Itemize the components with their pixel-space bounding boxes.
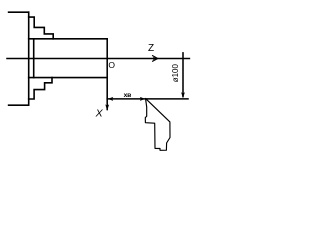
chuck top line — [9, 11, 29, 13]
svg-text:хв: хв — [124, 92, 132, 99]
chuck face vertical — [28, 12, 30, 105]
svg-text:ø100: ø100 — [171, 64, 180, 83]
chuck bottom jaw steps — [29, 78, 52, 99]
cutting tool — [145, 98, 170, 150]
xв dimension left arrowhead — [108, 97, 113, 101]
svg-text:Z: Z — [148, 43, 154, 54]
centerline / Z axis — [7, 58, 189, 60]
dimension line xв (bottom horizontal) — [107, 98, 188, 100]
dia100 dimension vertical — [182, 53, 184, 97]
workpiece grip vertical — [33, 39, 35, 78]
xв dimension right arrowhead — [140, 97, 145, 101]
workpiece top edge — [29, 38, 108, 40]
X axis vertical (workpiece end face) — [106, 39, 108, 110]
chuck bottom line — [9, 104, 29, 106]
svg-text:O: O — [108, 60, 115, 70]
workpiece bottom edge — [29, 77, 108, 79]
X axis arrowhead — [105, 104, 109, 110]
Z axis arrowhead — [153, 57, 158, 60]
chuck top jaw steps — [29, 17, 54, 39]
svg-text:X: X — [95, 108, 104, 120]
dia100 down arrowhead — [181, 92, 185, 98]
